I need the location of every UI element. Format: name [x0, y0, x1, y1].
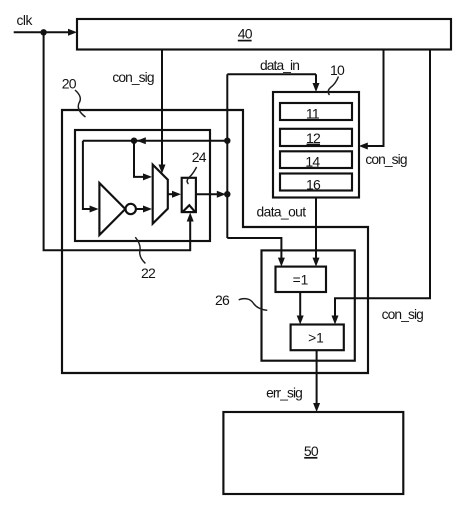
- block 10: [273, 92, 359, 198]
- wire err_sig to block 50: [316, 350, 318, 405]
- XOR gate =1: [276, 267, 327, 292]
- wire to mux top input: [134, 141, 145, 177]
- leader 20: [75, 90, 86, 117]
- inverter I1: [99, 183, 125, 235]
- block 20 outline: [62, 110, 368, 373]
- leader 24: [187, 167, 197, 184]
- svg-text:20: 20: [62, 76, 77, 92]
- multiplexer M1: [153, 165, 168, 224]
- wire feedback y141: [83, 140, 227, 142]
- wire clk input to block 40: [14, 31, 70, 33]
- svg-text:data_in: data_in: [260, 58, 299, 73]
- wire from net down to =1 gate: [227, 238, 281, 260]
- wire net x227 vertical: [226, 74, 228, 238]
- wire mux out to register 24: [168, 193, 174, 195]
- svg-text:50: 50: [304, 443, 319, 459]
- register cell 14: [280, 151, 352, 169]
- register 24: [182, 178, 196, 212]
- block 40: [77, 19, 451, 50]
- arrow clk into register 24 clock: [187, 213, 194, 222]
- wire clk down left side: [44, 32, 191, 250]
- svg-text:con_sig: con_sig: [112, 70, 153, 85]
- node junction 227,141: [224, 138, 230, 144]
- register 24 clock chevron: [182, 205, 195, 212]
- leader 22: [135, 237, 145, 263]
- svg-text:data_out: data_out: [257, 205, 307, 220]
- svg-text:40: 40: [238, 26, 253, 42]
- wire con_sig from 40 into block 10: [365, 50, 384, 147]
- OR gate >1: [291, 325, 344, 351]
- svg-text:24: 24: [192, 149, 207, 165]
- node junction 134,141: [131, 138, 137, 144]
- svg-text:10: 10: [330, 62, 345, 78]
- wire inverter out to mux: [136, 208, 145, 210]
- wire data_out from 10 to =1 gate: [315, 198, 317, 261]
- svg-text:con_sig: con_sig: [365, 152, 406, 167]
- register cell 12: [280, 129, 352, 146]
- svg-text:12: 12: [306, 130, 321, 146]
- svg-text:clk: clk: [17, 13, 33, 28]
- svg-text:11: 11: [306, 106, 320, 122]
- svg-text:>1: >1: [308, 330, 324, 345]
- block 26: [262, 250, 355, 360]
- wire con_sig right side to >1: [335, 50, 430, 318]
- leader 26: [239, 299, 268, 311]
- leader 10: [328, 77, 338, 96]
- block 50: [223, 412, 403, 494]
- wire con_sig from 40 to mux select: [161, 50, 163, 167]
- wire to inverter input: [83, 141, 92, 209]
- block 22: [75, 130, 210, 241]
- wire register 24 out: [196, 193, 219, 195]
- arrow data_in into block 10: [313, 83, 320, 92]
- svg-text:=1: =1: [293, 272, 309, 287]
- node junction 227,194: [224, 191, 230, 197]
- register cell 16: [280, 174, 352, 193]
- wire data_in: [227, 74, 316, 85]
- wire =1 to >1: [299, 292, 301, 318]
- svg-text:26: 26: [215, 292, 230, 308]
- svg-text:con_sig: con_sig: [382, 307, 423, 322]
- svg-text:22: 22: [141, 265, 156, 281]
- node clk junction: [40, 29, 46, 35]
- arrow feedback left: [137, 137, 146, 144]
- svg-text:err_sig: err_sig: [266, 385, 302, 400]
- register cell 11: [280, 103, 352, 122]
